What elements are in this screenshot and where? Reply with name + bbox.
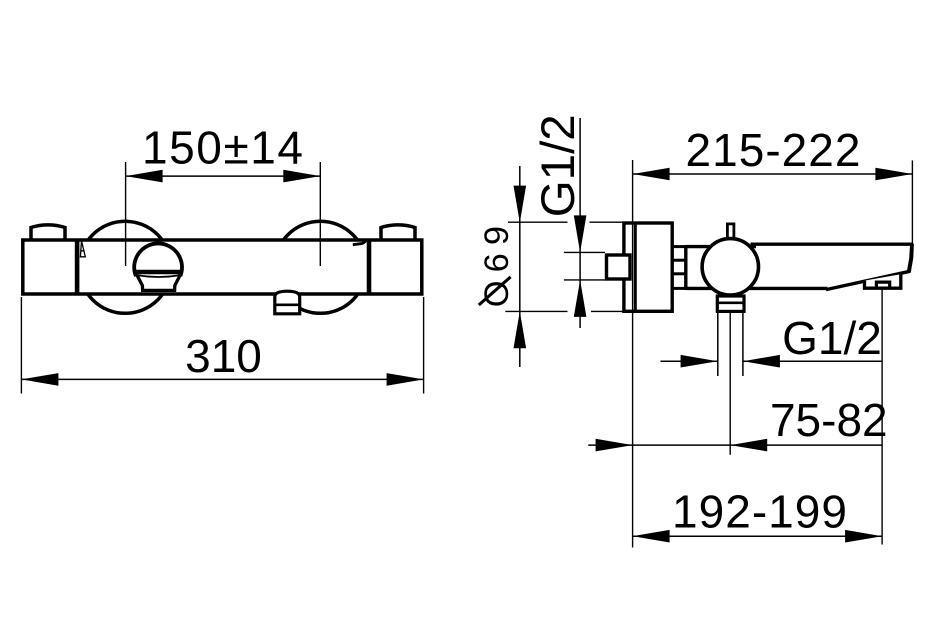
- svg-text:215-222: 215-222: [686, 124, 861, 176]
- dimension 310 extension line right: [423, 297, 425, 394]
- valve body left edge: [684, 245, 687, 290]
- knob skirt: [137, 275, 181, 291]
- dimension Ø69 top arrow: [514, 186, 527, 223]
- dimension 75-82 right arrow: [730, 439, 767, 452]
- thermostat knob dome: [134, 243, 182, 276]
- svg-text:O69: O69: [478, 218, 516, 307]
- wall extension line: [632, 160, 634, 548]
- dimension 310 left arrow: [21, 373, 58, 386]
- spout end face: [907, 244, 914, 273]
- right extension line lower dims: [881, 290, 883, 545]
- dimension 150±14 right arrow: [283, 170, 320, 183]
- dimension G1/2 bottom left arrow: [681, 355, 718, 368]
- dimension 215-222 line: [633, 173, 913, 175]
- left flange circle: [79, 221, 171, 313]
- dimension 215-222 right arrow: [875, 168, 912, 181]
- right extension line 215-222: [911, 160, 913, 244]
- shower outlet nipple: [275, 291, 300, 314]
- dimension Ø69 bottom arrow: [514, 311, 527, 348]
- dimension 310 right arrow: [387, 373, 424, 386]
- dimension G1/2 top extension upper: [564, 251, 605, 253]
- outlet inner line: [275, 303, 300, 306]
- outlet collar: [717, 296, 744, 311]
- right flange circle: [274, 221, 366, 313]
- dimension 75-82 line: [588, 444, 882, 446]
- dimension Ø69 line: [519, 166, 521, 367]
- valve tube top edge: [686, 245, 756, 248]
- dimension Ø69 extension bottom right segment: [591, 310, 624, 312]
- dimension Ø69 extension top left segment: [508, 221, 568, 223]
- connector rib line 1: [672, 259, 686, 262]
- dimension Ø69 extension bottom left segment: [505, 310, 567, 312]
- knob chord line: [135, 270, 182, 275]
- outlet pipe right line: [742, 313, 744, 376]
- right handle button: [381, 225, 415, 240]
- knob skirt top curve: [138, 275, 180, 277]
- svg-text:150±14: 150±14: [142, 122, 303, 174]
- collar inner line: [717, 301, 744, 304]
- svg-text:G1/2: G1/2: [532, 114, 585, 217]
- dimension 150±14 line: [126, 175, 321, 177]
- wall union nipple: [607, 255, 631, 279]
- dimension 310 line: [21, 378, 423, 380]
- aerator inner step: [876, 282, 889, 288]
- dimension 150±14 extension line left: [125, 162, 127, 266]
- wall escutcheon plate: [624, 223, 672, 311]
- outlet pipe left line: [717, 313, 719, 376]
- dimension 192-199 left arrow: [633, 530, 670, 543]
- dimension 75-82 left arrow: [596, 439, 633, 452]
- connector rib line 2: [672, 272, 686, 275]
- dimension 310 extension line left: [20, 297, 22, 394]
- dimension G1/2 top lower arrow: [574, 280, 587, 317]
- svg-text:310: 310: [185, 330, 262, 382]
- left handle button: [31, 225, 65, 240]
- escutcheon face line: [634, 223, 637, 311]
- dimension G1/2 bottom line left: [661, 360, 718, 362]
- left end separator: [75, 240, 80, 294]
- dimension 192-199 right arrow: [845, 530, 882, 543]
- svg-text:G1/2: G1/2: [782, 312, 882, 364]
- dimension G1/2 top extension lower: [564, 279, 605, 281]
- connector top line: [672, 245, 686, 248]
- dimension G1/2 top line: [579, 118, 581, 328]
- scale marker dash: [353, 241, 366, 245]
- handle stub: [727, 224, 734, 241]
- dimension Ø69 extension top right segment: [590, 221, 624, 223]
- mixer body bar: [23, 240, 422, 294]
- thermostat handle circle: [702, 239, 758, 295]
- spout underside diagonal: [826, 271, 910, 289]
- svg-text:75-82: 75-82: [770, 394, 888, 446]
- lever flag mark: [80, 241, 85, 257]
- dimension 150±14 left arrow: [126, 170, 163, 183]
- tube bottom edge: [686, 287, 828, 290]
- dimension 150±14 extension line right: [319, 162, 321, 266]
- dimension 215-222 left arrow: [633, 168, 670, 181]
- spout top edge: [751, 242, 913, 245]
- connector bottom line: [672, 287, 686, 290]
- outlet center line: [729, 313, 731, 455]
- diameter slash of Ø69: [479, 277, 511, 305]
- aerator housing: [865, 274, 901, 288]
- svg-text:192-199: 192-199: [672, 486, 847, 538]
- dimension 192-199 line: [633, 535, 883, 537]
- dimension G1/2 bottom line right: [743, 360, 882, 362]
- right end separator: [367, 240, 372, 294]
- dimension G1/2 bottom right arrow: [743, 355, 780, 368]
- dimension G1/2 top upper arrow: [574, 215, 587, 252]
